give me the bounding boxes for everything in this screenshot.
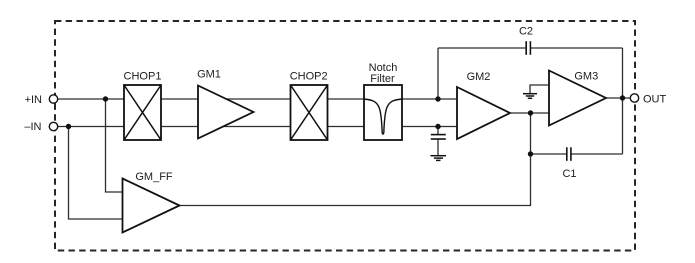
wire top rail — [54, 98, 457, 100]
op-amp GM1 — [198, 86, 254, 139]
wire GM2 output to GM3 input — [510, 112, 549, 114]
chopper CHOP1 — [124, 85, 161, 140]
wire filter cap to ground — [437, 139, 439, 156]
svg-text:GM1: GM1 — [197, 69, 221, 81]
capacitor filter C at notch output — [431, 135, 446, 139]
junction dot C1 node — [528, 151, 533, 156]
op-amp GM3 — [549, 71, 606, 126]
svg-text:GM3: GM3 — [574, 70, 598, 82]
svg-text:GM_FF: GM_FF — [135, 171, 173, 183]
wire C1 feedback left segment — [531, 153, 567, 155]
op-amp GM_FF — [123, 179, 180, 233]
terminal -IN — [49, 122, 57, 130]
junction dot C2 tap — [435, 96, 440, 101]
wire GM3 output — [606, 97, 631, 99]
svg-text:CHOP2: CHOP2 — [290, 70, 328, 82]
junction dot filter cap tap — [435, 124, 440, 129]
wire +IN branch to GM_FF — [106, 99, 123, 192]
svg-text:CHOP1: CHOP1 — [124, 71, 162, 83]
svg-text:OUT: OUT — [643, 94, 667, 106]
wire -IN branch to GM_FF — [69, 127, 123, 220]
wire C2 feedback right segment — [531, 47, 623, 49]
junction dot -IN branch — [66, 124, 71, 129]
svg-text:–IN: –IN — [24, 121, 41, 133]
wire notch output to filter cap — [437, 127, 439, 135]
junction dot output node — [620, 95, 625, 100]
wire GM3 noninverting input to ground — [530, 85, 549, 94]
wire C1 feedback right segment — [571, 153, 622, 155]
junction dot +IN branch — [103, 96, 108, 101]
capacitor C1 — [567, 147, 571, 161]
terminal OUT — [630, 94, 638, 102]
terminal +IN — [49, 95, 57, 103]
ground at GM3 noninverting input — [523, 94, 537, 99]
svg-text:+IN: +IN — [25, 94, 42, 106]
ground below filter capacitor — [431, 156, 447, 161]
junction dot GM2 output node — [528, 110, 533, 115]
dashed boundary — [55, 21, 635, 251]
wire bottom rail — [54, 126, 457, 128]
chopper CHOP2 — [291, 85, 328, 140]
notch filter block — [364, 85, 402, 140]
wire output node vertical — [622, 48, 624, 154]
wire C2 feedback left segment — [438, 47, 526, 49]
svg-text:C1: C1 — [562, 168, 576, 180]
wire C2 feedback riser — [437, 48, 439, 99]
op-amp GM2 — [457, 87, 510, 139]
wire GM_FF output feedforward — [180, 113, 531, 206]
svg-text:Filter: Filter — [370, 73, 395, 85]
capacitor C2 — [526, 41, 530, 55]
svg-text:C2: C2 — [519, 25, 533, 37]
svg-text:Notch: Notch — [369, 62, 398, 74]
svg-text:GM2: GM2 — [467, 71, 491, 83]
